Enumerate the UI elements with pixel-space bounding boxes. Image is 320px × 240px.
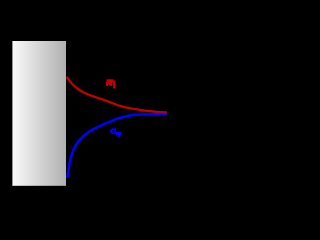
velocity profile curve (blue)	[67, 114, 167, 178]
thermal profile label (red)	[106, 79, 115, 88]
velocity profile label (blue)	[110, 128, 121, 137]
temperature profile curve (red)	[67, 77, 167, 113]
wall (heated plate)	[12, 41, 66, 186]
